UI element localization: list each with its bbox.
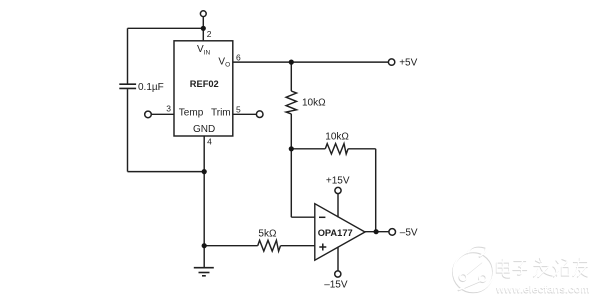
- junction node R1/R2 feedback: [289, 146, 294, 151]
- wire left vertical upper: [127, 28, 129, 83]
- svg-text:10kΩ: 10kΩ: [325, 131, 349, 142]
- svg-text:–15V: –15V: [324, 279, 348, 290]
- wire terminal to VIN pin: [202, 17, 204, 41]
- wire bottom horizontal to GND node: [128, 171, 205, 173]
- svg-text:GND: GND: [193, 124, 215, 135]
- junction node VO / R1: [289, 60, 294, 65]
- svg-text:0.1µF: 0.1µF: [138, 82, 164, 93]
- svg-text:5: 5: [236, 104, 241, 114]
- terminal +5V circle: [388, 59, 394, 65]
- resistor R1 bottom lead: [290, 114, 292, 149]
- svg-text:+15V: +15V: [326, 175, 350, 186]
- capacitor C1 plates: [119, 83, 136, 85]
- svg-text:Temp: Temp: [179, 107, 204, 118]
- resistor R2 zigzag: [325, 144, 348, 154]
- svg-text:5kΩ: 5kΩ: [258, 229, 277, 240]
- svg-text:4: 4: [207, 137, 212, 147]
- wire pin3: [151, 113, 174, 115]
- terminal pin3 circle: [145, 111, 152, 118]
- resistor R1 10k vertical: top lead: [290, 62, 292, 91]
- wire pin5: [233, 113, 256, 115]
- wire output to -5V: [365, 231, 389, 233]
- resistor R2 10k feedback: left lead: [291, 148, 325, 150]
- resistor R3 zigzag: [258, 240, 281, 251]
- op-amp minus input sign: [319, 217, 326, 250]
- svg-text:2: 2: [207, 29, 212, 39]
- svg-text:REF02: REF02: [190, 79, 219, 89]
- watermark chinese characters 电子发烧友 (stylized strokes, embossed): [497, 258, 588, 279]
- junction node bottom-left wire: [202, 169, 207, 174]
- svg-text:3: 3: [166, 103, 171, 113]
- svg-text:10kΩ: 10kΩ: [302, 98, 326, 109]
- terminal input top circle: [200, 11, 206, 17]
- junction node pin2/VIN: [201, 26, 206, 31]
- wire ground stem: [203, 246, 205, 267]
- wire inverting branch vertical: [290, 149, 292, 217]
- terminal -5V circle: [389, 229, 396, 236]
- svg-text:+5V: +5V: [399, 57, 417, 68]
- IC U1 REF02 box: [174, 41, 233, 136]
- junction dots: [201, 26, 379, 249]
- op-amp plus input sign: [319, 246, 326, 248]
- wire pin6 VO to +5V: [233, 61, 389, 63]
- wire feedback vertical down to output: [375, 149, 377, 232]
- wire +15V to op-amp: [337, 194, 339, 218]
- wire pin4 GND down: [203, 136, 205, 172]
- svg-text:OPA177: OPA177: [318, 228, 353, 238]
- ground symbol bars: [194, 267, 214, 269]
- wire op-amp to -15V: [337, 247, 339, 271]
- svg-text:–5V: –5V: [400, 227, 418, 238]
- terminal +15V circle: [335, 187, 341, 193]
- svg-text:Trim: Trim: [211, 107, 231, 118]
- resistor R3 5k: left lead: [204, 245, 258, 247]
- svg-text:www.elecfans.com: www.elecfans.com: [496, 283, 591, 295]
- wire inverting branch horizontal: [291, 216, 315, 218]
- resistor R2 right lead: [348, 148, 376, 150]
- junction node output / feedback: [374, 229, 379, 234]
- resistor R1 zigzag: [286, 91, 296, 114]
- wire left vertical lower: [127, 89, 129, 172]
- junction node ground / +input: [202, 243, 207, 248]
- wire cap top horizontal: [128, 27, 204, 29]
- resistor R3 right lead to +input: [281, 245, 315, 247]
- terminal pin5 circle: [256, 111, 263, 118]
- op-amp U2 OPA177 triangle: [315, 204, 365, 261]
- watermark logo circle: [453, 246, 494, 293]
- terminal -15V circle: [335, 271, 341, 277]
- svg-text:6: 6: [236, 53, 241, 63]
